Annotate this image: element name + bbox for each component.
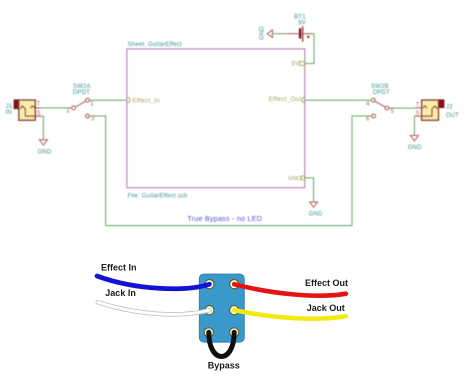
svg-text:GND: GND xyxy=(408,145,422,151)
svg-text:S: S xyxy=(37,111,41,117)
J1 pin T stub xyxy=(35,107,41,109)
svg-text:IN: IN xyxy=(5,110,11,116)
svg-text:Jack Out: Jack Out xyxy=(307,303,345,313)
svg-text:True Bypass - no LED: True Bypass - no LED xyxy=(187,214,262,223)
svg-text:5: 5 xyxy=(391,109,395,115)
wire SW2A pin 1 to sheet Effect_In xyxy=(90,99,127,101)
svg-text:1: 1 xyxy=(90,102,94,108)
svg-text:9V: 9V xyxy=(291,61,300,68)
wire SW2B pin 5 to J2 T xyxy=(389,107,415,109)
svg-text:Effect Out: Effect Out xyxy=(305,278,348,288)
J1 pin S stub xyxy=(35,115,41,117)
svg-text:6: 6 xyxy=(366,117,370,123)
red wire Effect Out xyxy=(234,284,346,295)
lug top right xyxy=(230,280,239,289)
wire bypass bus to SW2B pin 6 xyxy=(352,116,372,226)
lug top left xyxy=(205,280,214,289)
svg-text:Sheet: GuitarEffect: Sheet: GuitarEffect xyxy=(128,42,183,48)
stomp switch body illustration xyxy=(199,274,244,342)
wire battery minus to ground xyxy=(272,33,287,35)
switch SW2A xyxy=(72,98,90,118)
sheet pin Effect_In xyxy=(127,97,160,104)
svg-text:File: GuitarEffect.sch: File: GuitarEffect.sch xyxy=(128,193,188,199)
svg-text:T: T xyxy=(37,102,41,108)
jack J1 xyxy=(14,100,35,121)
sheet pin 9V xyxy=(291,61,304,68)
lug bottom right xyxy=(230,328,239,337)
svg-text:Jack In: Jack In xyxy=(105,288,136,298)
wire sheet GND pin to ground xyxy=(305,178,314,202)
hierarchical sheet GuitarEffect xyxy=(127,49,305,188)
lug middle right xyxy=(230,306,239,315)
wire J1 S to ground xyxy=(41,116,43,139)
svg-text:Effect_In: Effect_In xyxy=(132,97,160,104)
ground at battery minus xyxy=(259,26,272,40)
svg-text:T: T xyxy=(416,102,420,108)
lug bottom left xyxy=(204,328,213,337)
wire J1 T to SW2A pin 2 xyxy=(41,107,72,109)
svg-text:GND: GND xyxy=(288,176,301,182)
sheet pin GND xyxy=(288,176,305,182)
J2 pin S stub xyxy=(414,115,421,117)
wire J2 S to ground xyxy=(413,116,415,135)
white wire Jack In xyxy=(98,302,209,314)
svg-text:Effect_Out: Effect_Out xyxy=(269,96,302,103)
lug middle left xyxy=(205,306,214,315)
svg-text:DPDT: DPDT xyxy=(373,90,390,96)
jack J2 xyxy=(422,100,445,121)
wire SW2A pin 3 to bypass bus xyxy=(90,116,106,226)
wire sheet Effect_Out to SW2B pin 4 xyxy=(305,99,372,101)
J2 pin T stub xyxy=(415,107,422,109)
ground under sheet GND pin xyxy=(309,202,323,218)
yellow wire Jack Out xyxy=(234,310,346,319)
ground under J1 xyxy=(38,140,52,156)
svg-text:J2: J2 xyxy=(446,105,453,111)
svg-text:GND: GND xyxy=(309,212,323,218)
blue wire Effect In xyxy=(97,276,209,289)
wire bypass bus bottom xyxy=(106,225,352,227)
svg-text:2: 2 xyxy=(66,108,70,114)
wire battery plus to sheet 9V pin xyxy=(305,34,314,64)
battery BT1 xyxy=(287,26,312,42)
ground under J2 xyxy=(408,136,422,152)
svg-text:3: 3 xyxy=(91,117,95,123)
sheet pin Effect_Out xyxy=(269,96,305,103)
svg-text:Bypass: Bypass xyxy=(208,360,240,370)
svg-text:Effect In: Effect In xyxy=(101,263,137,273)
svg-text:9V: 9V xyxy=(298,21,306,27)
svg-text:DPDT: DPDT xyxy=(73,90,90,96)
svg-text:J1: J1 xyxy=(6,104,13,110)
svg-text:GND: GND xyxy=(259,26,265,40)
svg-text:S: S xyxy=(416,111,420,117)
svg-text:4: 4 xyxy=(366,102,370,108)
svg-text:GND: GND xyxy=(38,150,52,156)
switch SW2B xyxy=(371,98,388,118)
svg-text:OUT: OUT xyxy=(446,113,459,119)
black bypass wire xyxy=(209,332,234,356)
